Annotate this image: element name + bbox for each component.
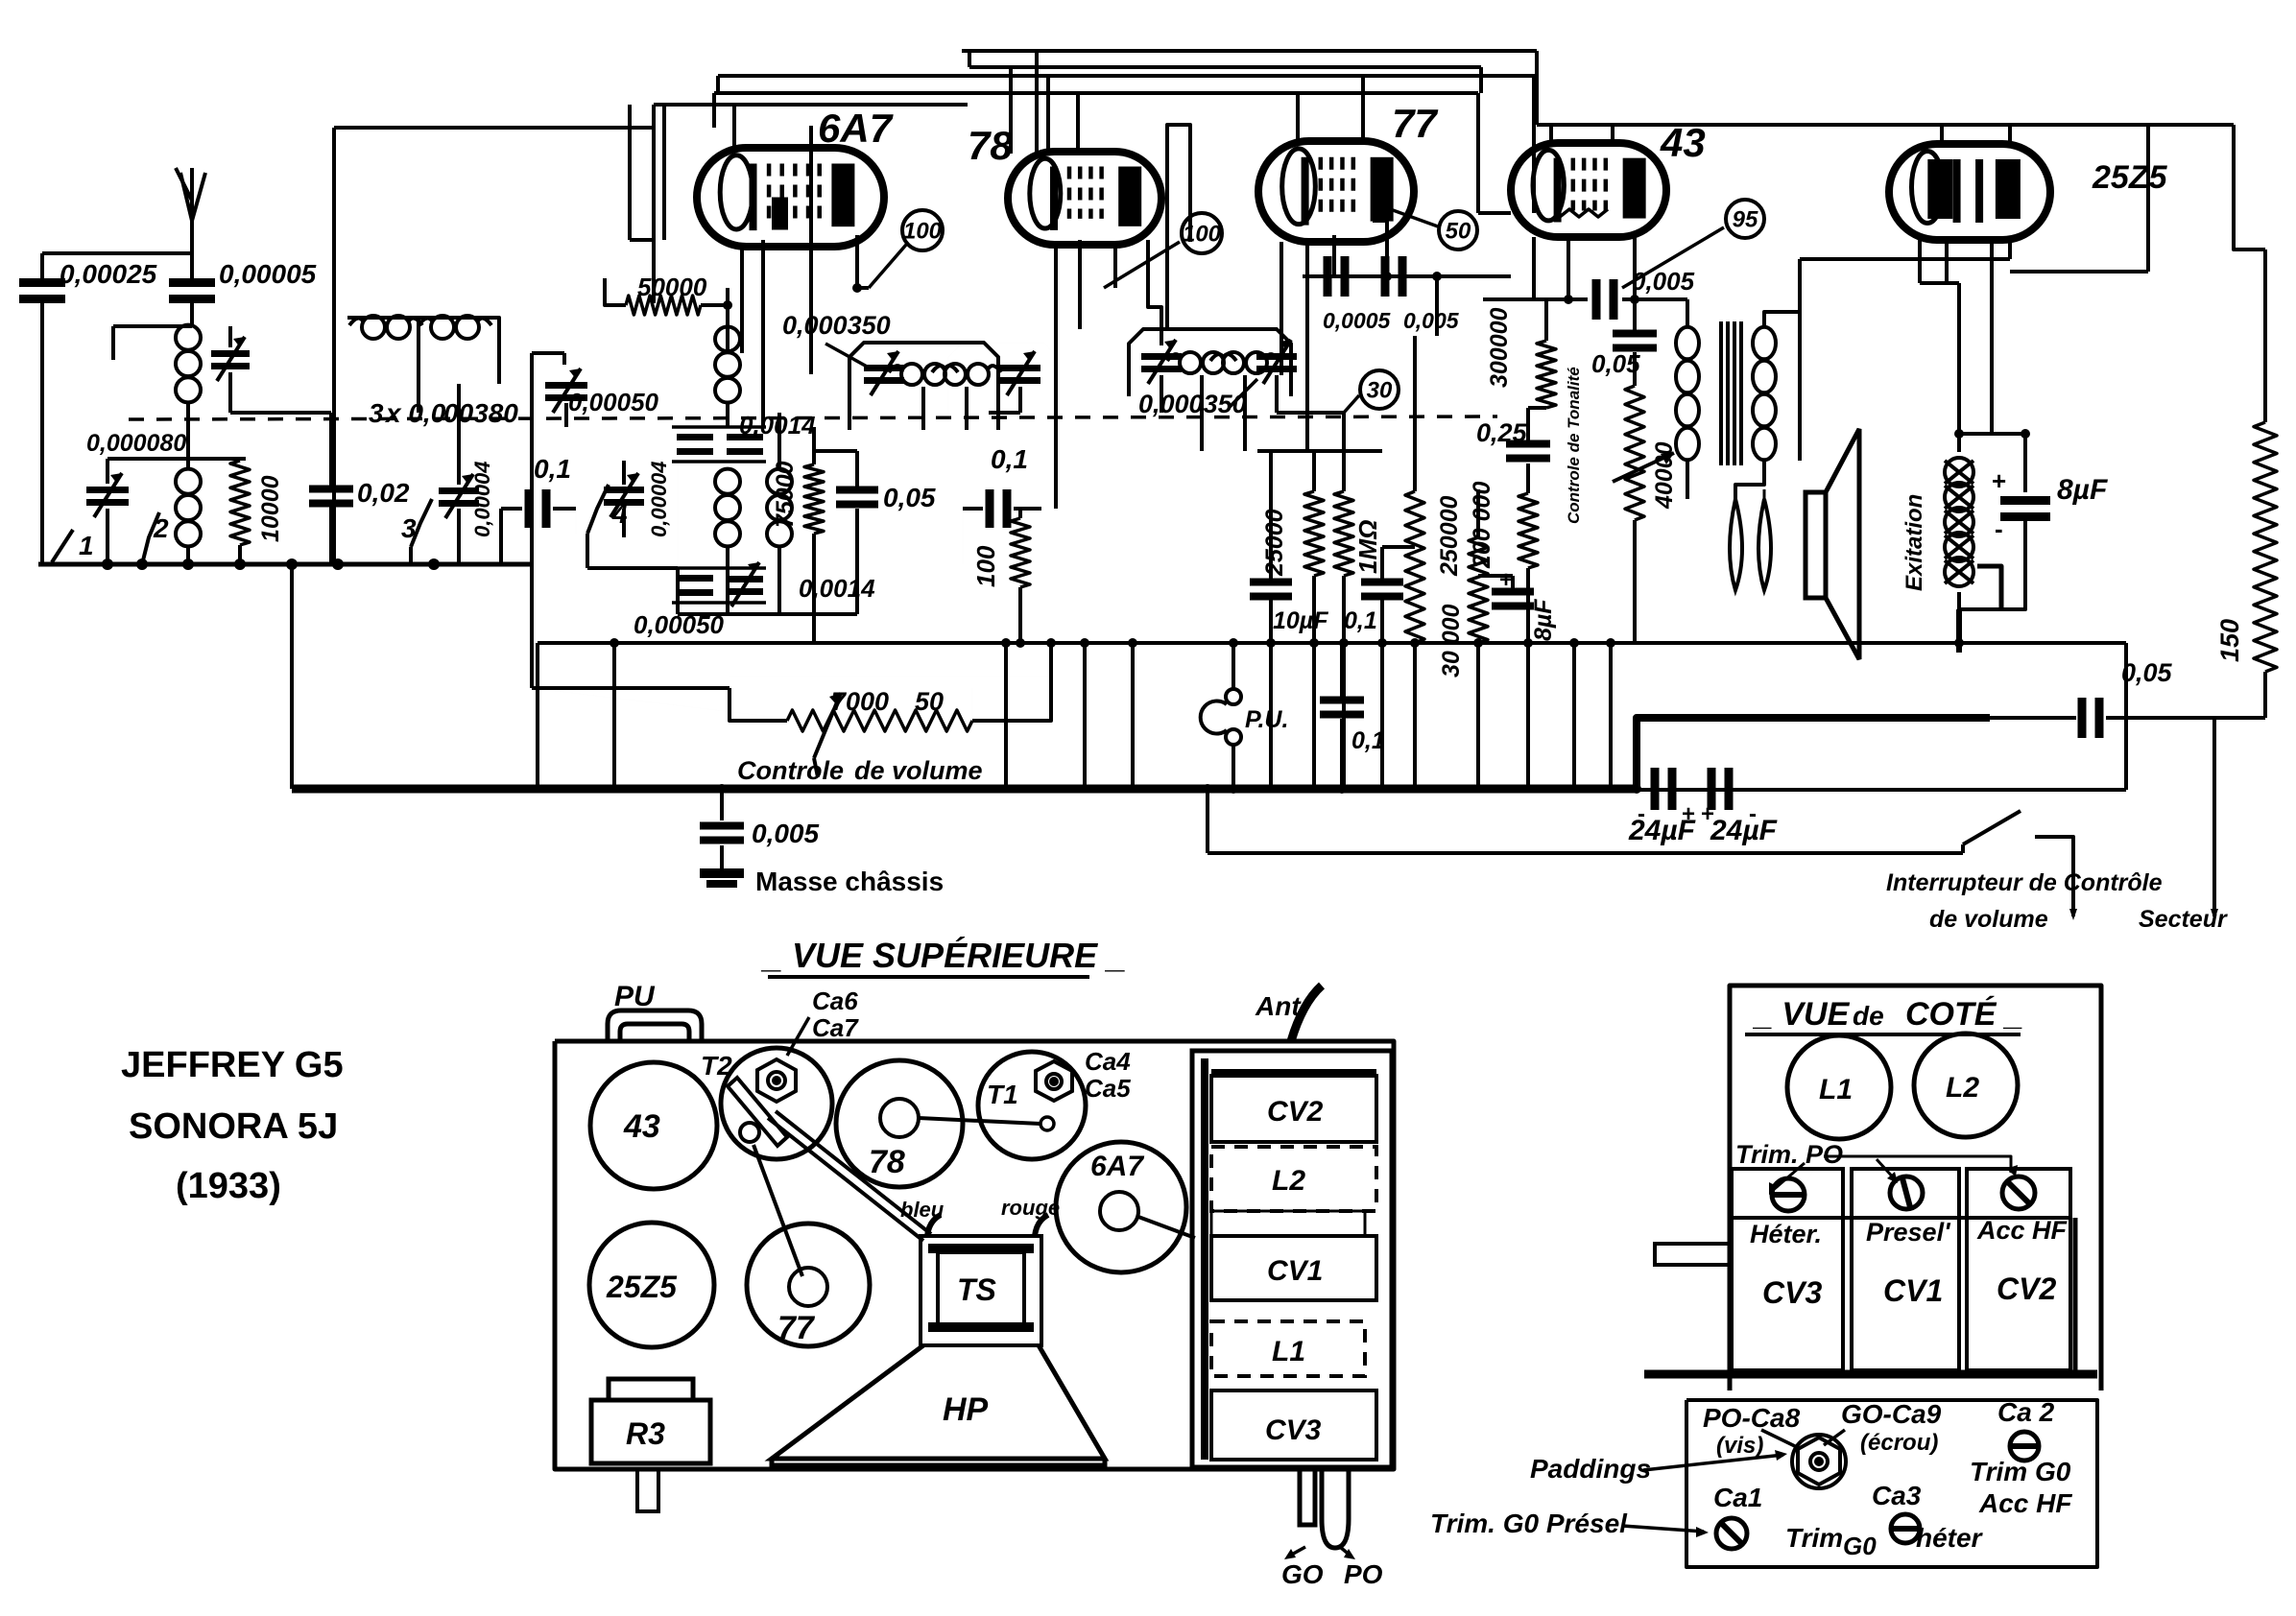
svg-text:(écrou): (écrou) [1860, 1430, 1938, 1456]
wire [1340, 643, 1344, 697]
capacitor 0,00005 [169, 278, 215, 303]
wire [716, 76, 720, 93]
svg-text:6A7: 6A7 [1090, 1151, 1144, 1182]
wire [1312, 451, 1316, 491]
resistor 150 [2254, 422, 2277, 672]
wire [186, 547, 190, 564]
svg-text:PO: PO [1344, 1559, 1383, 1589]
trimmer IF1 primary [864, 365, 904, 384]
leader [1771, 1163, 1805, 1192]
pin label (30) near 77 grid [1360, 370, 1399, 409]
wire [1956, 609, 1962, 653]
svg-text:300000: 300000 [1486, 307, 1513, 388]
svg-text:0,1: 0,1 [534, 454, 571, 484]
wire [1018, 587, 1022, 643]
wire [1800, 257, 2010, 261]
wiper [814, 693, 841, 758]
svg-text:CV1: CV1 [1267, 1255, 1323, 1287]
junction dots [610, 638, 619, 648]
wire [1959, 592, 2025, 609]
n [1800, 1169, 1814, 1195]
svg-text:3: 3 [369, 398, 384, 428]
coil L1 side [1787, 1035, 1891, 1139]
svg-text:HP: HP [943, 1391, 989, 1428]
tube 77 top view [747, 1224, 870, 1346]
inductor IF2 primary [1167, 352, 1236, 373]
svg-text:77: 77 [777, 1310, 816, 1346]
wire [1479, 67, 1483, 93]
wire [457, 384, 461, 485]
wire [1018, 387, 1022, 413]
wire [777, 547, 781, 614]
wire [1413, 336, 1417, 491]
svg-text:L1: L1 [1819, 1074, 1853, 1105]
svg-text:-: - [1638, 801, 1645, 827]
wire leader [1344, 395, 1359, 413]
svg-text:PO-Ca8: PO-Ca8 [1703, 1403, 1801, 1433]
wire [1764, 312, 1800, 461]
wire [712, 93, 716, 128]
wire heater bus 2 [718, 74, 1537, 78]
capacitor 0,05 [836, 487, 878, 509]
node [575, 509, 577, 534]
svg-text:Trim G0: Trim G0 [1970, 1457, 2071, 1486]
svg-text:25Z5: 25Z5 [606, 1270, 678, 1304]
resistor 40000 tone [1625, 386, 1644, 520]
svg-text:6A7: 6A7 [818, 106, 894, 151]
wire [2263, 672, 2267, 718]
link T2-77 [753, 1145, 802, 1276]
wire [2263, 250, 2267, 422]
wire [972, 643, 1051, 721]
leader [1622, 1526, 1704, 1532]
trimmer screw Ca3 [1891, 1514, 1920, 1543]
svg-text:100: 100 [1183, 221, 1222, 247]
tube 78 top view [836, 1060, 963, 1187]
wire [42, 251, 192, 255]
wire [2212, 902, 2216, 916]
wire dropper [1269, 643, 1273, 789]
wire [1232, 745, 1235, 790]
wire [1342, 413, 1346, 451]
CV3 box [1732, 1169, 1843, 1370]
capacitor 0,1 left [525, 489, 551, 528]
wire 77 anode lead [1373, 221, 1387, 276]
svg-text:Paddings: Paddings [1530, 1454, 1651, 1484]
wire [40, 253, 44, 278]
wire 43 anode lead [1633, 236, 1637, 330]
CV1 box [1852, 1169, 1959, 1370]
link 6A7-CV [1138, 1217, 1195, 1238]
resistor 75000 [804, 464, 824, 534]
svg-text:0,05: 0,05 [1591, 349, 1640, 378]
wire [814, 449, 857, 453]
thick base line [1644, 1370, 2097, 1379]
chassis outline [555, 1041, 1394, 1469]
wire [1526, 568, 1530, 643]
wire [190, 303, 194, 326]
svg-text:Ca1: Ca1 [1713, 1483, 1762, 1512]
speaker HP top view [772, 1345, 1105, 1465]
wire [586, 534, 589, 568]
wire [968, 51, 971, 67]
trimmer padder d [727, 576, 763, 595]
svg-text:0,00004: 0,00004 [470, 461, 494, 537]
wire [113, 324, 192, 328]
svg-text:_ VUE: _ VUE [1753, 996, 1851, 1033]
svg-text:GO-Ca9: GO-Ca9 [1841, 1399, 1942, 1429]
wire leader [1104, 242, 1180, 288]
wire dropper [1413, 643, 1417, 789]
inductor OT primary [1676, 327, 1699, 461]
wire heater bus 1 [969, 65, 1481, 69]
wire 78 top lead a [1046, 76, 1050, 152]
wire [726, 403, 729, 427]
svg-text:-: - [1995, 514, 2003, 543]
svg-text:0,0014: 0,0014 [799, 574, 875, 603]
wire 78 anode riser pair [1167, 125, 1190, 329]
svg-text:78: 78 [968, 123, 1013, 168]
svg-text:10µF: 10µF [1273, 607, 1328, 634]
wire [1763, 489, 1766, 499]
IF1 can outline [849, 343, 998, 430]
wire 25Z5 top lead b [2008, 125, 2012, 146]
svg-text:43: 43 [1660, 120, 1706, 165]
resistor 1M [1334, 491, 1353, 576]
padder [1792, 1435, 1846, 1488]
wire 78 grid lead [1078, 240, 1082, 329]
svg-text:24µF: 24µF [1710, 815, 1778, 846]
side view lower box [1686, 1400, 2097, 1567]
wire [1798, 259, 1802, 312]
svg-text:T1: T1 [987, 1080, 1018, 1109]
wire 77 top lead a [1296, 93, 1300, 144]
svg-text:rouge: rouge [1001, 1196, 1060, 1220]
wire [2106, 716, 2265, 720]
wire [186, 451, 190, 468]
wire [701, 303, 728, 307]
trimmer T1 [978, 1052, 1086, 1159]
wire [334, 126, 654, 130]
wire to 78 [1009, 67, 1013, 154]
wire [1990, 716, 2076, 720]
svg-text:1MΩ: 1MΩ [1353, 520, 1382, 574]
svg-text:0,02: 0,02 [357, 478, 410, 508]
svg-text:75000: 75000 [772, 461, 799, 528]
wire [1532, 76, 1536, 213]
pickup P.U. [1201, 689, 1241, 745]
wire dropper [1476, 643, 1480, 789]
wire [2008, 240, 2012, 259]
wire [777, 413, 781, 468]
svg-text:CV2: CV2 [1997, 1271, 2056, 1306]
svg-text:de volume: de volume [1929, 906, 2048, 933]
svg-text:0,0005: 0,0005 [1323, 308, 1392, 333]
IF2 can outline [1129, 329, 1291, 396]
wire 78 anode lead [1148, 240, 1161, 345]
wire [1257, 449, 1382, 453]
capacitor padder a [677, 434, 713, 455]
capacitor 8uF a [1492, 588, 1534, 610]
antenna [180, 173, 192, 221]
wire [652, 105, 656, 303]
transformer TS [921, 1236, 1041, 1345]
inductor 6A7 osc anode coil [715, 327, 740, 403]
side view upper box [1730, 986, 2101, 1390]
pin label (100) near 6A7 [902, 210, 943, 250]
wire [630, 238, 654, 242]
wire [1476, 489, 1480, 537]
capacitor 0,005 chassis [700, 822, 744, 844]
n [532, 688, 804, 721]
wire [1342, 576, 1346, 643]
svg-text:8µF: 8µF [2057, 474, 2108, 506]
svg-text:0,1: 0,1 [1344, 607, 1377, 634]
wire [1478, 574, 1513, 578]
wire [532, 686, 729, 690]
switch contact 1 [52, 530, 73, 562]
svg-text:Ca 2: Ca 2 [1997, 1397, 2055, 1427]
svg-text:JEFFREY G5: JEFFREY G5 [121, 1045, 344, 1085]
leader [1288, 1547, 1305, 1557]
wire thick ground bus [292, 785, 1637, 794]
switch contact 2 [142, 512, 159, 564]
L2 cell [1211, 1147, 1376, 1211]
tube 43 envelope [1511, 143, 1666, 237]
tube 25Z5 envelope [1889, 144, 2050, 240]
wire [1312, 576, 1316, 643]
svg-text:T2: T2 [701, 1051, 732, 1081]
wire 43 top lead b [1611, 125, 1614, 146]
wire [1160, 375, 1163, 413]
tube 6A7 envelope [697, 148, 884, 247]
tube 6A7 top view [1056, 1142, 1186, 1272]
wire [1382, 545, 1415, 549]
trimmer capacitor 4 [604, 487, 644, 506]
wire dropper [1131, 643, 1135, 789]
ground chassis symbol [700, 868, 744, 888]
svg-text:L2: L2 [1946, 1072, 1979, 1104]
svg-text:Controle de Tonalité: Controle de Tonalité [1565, 367, 1583, 524]
svg-text:1: 1 [79, 531, 94, 560]
wire [729, 688, 787, 721]
wire coil box top [347, 318, 499, 384]
svg-text:00380: 00380 [443, 398, 518, 428]
filament 43 [1560, 209, 1608, 217]
wire [1637, 788, 2126, 792]
wire 77 plate row [1303, 274, 1416, 278]
svg-text:+: + [1499, 567, 1513, 593]
svg-text:77: 77 [1392, 101, 1438, 146]
wire 78 top lead b [1076, 93, 1080, 152]
svg-text:0,0014: 0,0014 [739, 411, 816, 440]
switch contact 4 [587, 485, 609, 534]
wire [1735, 461, 1764, 499]
svg-text:250000: 250000 [1436, 495, 1463, 577]
wire [562, 353, 566, 365]
wire [1622, 297, 1687, 301]
wire [329, 507, 333, 564]
wire [1018, 509, 1022, 518]
wire [564, 403, 568, 427]
wire [812, 534, 816, 643]
wire [855, 451, 859, 487]
trimmer IF2 secondary [1256, 353, 1297, 372]
wire 6A7 lead [761, 240, 765, 427]
svg-text:100: 100 [903, 218, 943, 244]
wiper arrow [1613, 453, 1674, 482]
svg-text:0,000080: 0,000080 [86, 430, 186, 457]
CV3 cell [1211, 1390, 1376, 1460]
wire [499, 509, 503, 564]
wire dropper [1526, 643, 1530, 789]
wire 25Z5 top lead [1940, 125, 1944, 146]
wire [1686, 299, 1689, 326]
gang tuning dashed link [129, 416, 1497, 419]
wire B+ right run [1537, 123, 2234, 127]
svg-text:150: 150 [2215, 619, 2244, 662]
wire [1511, 576, 1515, 592]
inductor antenna primary [176, 325, 201, 403]
wire [111, 326, 115, 360]
wire [501, 507, 522, 511]
inductor IF1 secondary [932, 364, 1001, 385]
inductor 6A7 osc grid coil [715, 469, 740, 547]
wire B+ top bus [962, 49, 1537, 53]
wire [728, 612, 857, 616]
wire 77 grid lead [1332, 235, 1336, 276]
svg-text:+: + [1701, 801, 1714, 827]
trimmer T2 [721, 1048, 832, 1159]
svg-text:x 0,0: x 0,0 [384, 398, 446, 428]
svg-text:Ca6: Ca6 [812, 986, 858, 1015]
wire [2023, 521, 2027, 595]
wire 25Z5 lead b [1945, 240, 1949, 283]
svg-text:43: 43 [623, 1108, 660, 1145]
svg-text:Ca5: Ca5 [1085, 1074, 1131, 1103]
wire [553, 507, 576, 511]
leader [1877, 1159, 1896, 1180]
wire [1277, 411, 1344, 415]
wire [1435, 276, 1439, 336]
capacitor 0,005b [1592, 279, 1618, 320]
wire [532, 351, 564, 355]
svg-text:Acc HF: Acc HF [1978, 1488, 2072, 1518]
CV2 cell [1211, 1076, 1376, 1142]
n [1686, 299, 1688, 326]
inductor 6A7 osc tickler [767, 469, 792, 547]
svg-text:7000: 7000 [831, 687, 889, 716]
wire [622, 509, 626, 537]
capacitor 0,1 (78 cathode) [986, 489, 1012, 528]
wire [1232, 643, 1235, 689]
skip [948, 343, 1056, 422]
svg-text:Preselʹ: Preselʹ [1866, 1218, 1951, 1247]
wire [672, 425, 766, 429]
dial cord [768, 1118, 923, 1241]
wire [1200, 375, 1204, 451]
capacitor 0,005a [1381, 256, 1407, 297]
gang condenser block [1192, 1051, 1392, 1467]
svg-text:0,00050: 0,00050 [568, 388, 659, 416]
wire [965, 387, 969, 430]
svg-text:+: + [1682, 801, 1695, 827]
svg-text:CV1: CV1 [1883, 1273, 1943, 1308]
capacitor 24uF a [1651, 768, 1677, 810]
wire [186, 403, 190, 451]
wire [812, 427, 816, 464]
svg-text:200 000: 200 000 [1469, 482, 1495, 569]
svg-text:0,005: 0,005 [1632, 267, 1695, 296]
switch contact 3 [411, 499, 432, 547]
wire [672, 566, 766, 570]
svg-text:de volume: de volume [854, 756, 983, 785]
inductor osc grid PO/GO [349, 316, 422, 339]
resistor 300000 [1537, 341, 1556, 408]
wire [1206, 790, 1209, 853]
wire [238, 459, 242, 461]
wire screen bus [714, 91, 1478, 95]
wire [290, 564, 294, 789]
wire [2035, 837, 2073, 902]
wire [1380, 596, 1384, 643]
T1 nut [1036, 1061, 1072, 1101]
GO PO plug [1300, 1469, 1349, 1548]
svg-text:Interrupteur de Contrôle: Interrupteur de Contrôle [1886, 869, 2163, 896]
wire [1920, 281, 1959, 285]
wire [720, 789, 724, 820]
svg-text:Ca3: Ca3 [1872, 1481, 1922, 1510]
wire [654, 103, 968, 107]
wire [989, 411, 1020, 415]
switch interrupteur arm [1963, 811, 2021, 844]
antenna symbol [176, 168, 192, 201]
separator [1732, 1216, 2070, 1220]
inductor antenna secondary [176, 469, 201, 547]
svg-text:héter: héter [1916, 1523, 1984, 1553]
wire dropper [1609, 643, 1613, 789]
wire [409, 547, 413, 564]
resistor 100 [1011, 518, 1030, 587]
wire [1483, 297, 1588, 301]
capacitor 0,0005 [1324, 256, 1350, 297]
svg-text:50: 50 [915, 687, 944, 716]
svg-text:-: - [1749, 801, 1757, 827]
svg-text:50: 50 [1446, 218, 1471, 244]
svg-text:Acc HF: Acc HF [1976, 1216, 2069, 1245]
wire [855, 509, 859, 614]
wire 43 top lead a [1549, 125, 1553, 146]
wire 6A7 grid lead [809, 126, 813, 374]
leader [825, 344, 869, 368]
svg-text:G0: G0 [1843, 1532, 1877, 1560]
PU handle [608, 1010, 702, 1041]
svg-text:CV2: CV2 [1267, 1096, 1324, 1128]
capacitor 0,05b [1613, 330, 1657, 352]
wire [1528, 406, 1546, 410]
capacitor 0,02 [309, 486, 353, 508]
wire [1208, 851, 1963, 855]
wire [726, 288, 729, 353]
tube 25Z5 top view [589, 1223, 714, 1347]
wire [329, 413, 333, 486]
svg-text:0,00025: 0,00025 [60, 259, 157, 289]
svg-text:L1: L1 [1272, 1336, 1305, 1367]
wire [1243, 375, 1247, 451]
pin label (50) near 77 [1439, 211, 1477, 250]
capacitor 10uF [1250, 579, 1292, 601]
tube 77 envelope [1258, 141, 1414, 242]
